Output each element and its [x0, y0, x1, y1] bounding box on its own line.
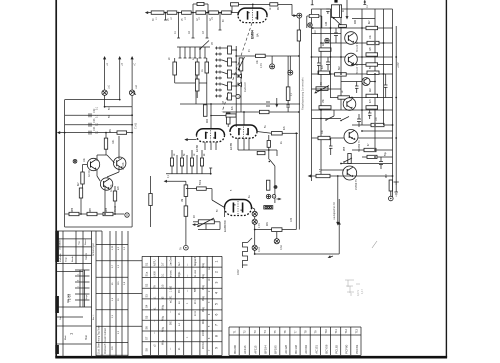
node input arrow left [57, 131, 65, 134]
wire R82 drop [105, 133, 107, 155]
capacitor C15 [286, 100, 290, 112]
node MP5 [272, 195, 276, 199]
wire hbus y81 [341, 81, 375, 83]
resistor R14 [256, 54, 266, 57]
right block outer rail [395, 26, 397, 185]
wire MP2 stub [271, 56, 273, 64]
svg-text:2: 2 [215, 271, 219, 273]
title block texts [59, 239, 108, 354]
capacitor C41 [334, 28, 338, 43]
capacitor C33 [89, 123, 91, 127]
resistor R31 [272, 228, 282, 232]
wire R10-R12 base [175, 58, 207, 83]
resistor R16 [259, 110, 269, 113]
trimmer bank Tr1 [179, 47, 207, 58]
right block rail4 [361, 9, 363, 125]
resistor R29 [197, 187, 207, 190]
svg-text:4: 4 [215, 292, 219, 294]
parts table grid [142, 256, 222, 355]
svg-text:R87: R87 [90, 207, 92, 212]
border frame right [445, 0, 447, 358]
switch S10 [343, 158, 352, 163]
wire V5 cathode down [185, 216, 187, 245]
wire V3 cathode row [238, 150, 277, 156]
wire R84 down [80, 198, 82, 214]
svg-text:20 90: 20 90 [202, 329, 205, 336]
svg-text:BCY58: BCY58 [324, 344, 328, 354]
resistor R88 [103, 212, 113, 215]
svg-text:S4: S4 [145, 304, 149, 308]
resistor R10 [173, 62, 177, 75]
svg-text:90 1: 90 1 [195, 299, 197, 304]
resistor R60 [366, 63, 378, 66]
border frame bottom [55, 356, 447, 359]
node +A supply arrow [103, 56, 106, 90]
tank circuit L10 [307, 0, 322, 28]
resistor R45 [318, 71, 330, 74]
node supply tap [394, 182, 399, 196]
capacitor C20 [266, 102, 270, 106]
svg-text:m1, 91: m1, 91 [170, 295, 173, 303]
svg-text:BF195: BF195 [274, 345, 278, 354]
svg-text:EABC80: EABC80 [223, 220, 227, 232]
wire stub top [363, 0, 366, 4]
resistor R48 [338, 96, 350, 99]
svg-text:50µ: 50µ [385, 151, 387, 156]
node MP1 [297, 13, 302, 18]
svg-text:Zus.: Zus. [60, 315, 62, 320]
filter bank Fi1 rows [215, 47, 222, 98]
svg-text:2xAA119: 2xAA119 [244, 82, 247, 92]
wire volume line arrow [164, 180, 186, 183]
svg-text:Werkstoff Modell Rohteil: Werkstoff Modell Rohteil [104, 328, 107, 354]
svg-text:Blatt: Blatt [85, 335, 88, 340]
svg-text:S5: S5 [145, 315, 149, 319]
wire tube pins V2 [205, 142, 216, 150]
capacitor C34 [89, 131, 91, 135]
resistor R6b [231, 3, 239, 6]
wire P2 arrow left [192, 223, 198, 226]
wire MP3 stub [289, 56, 291, 70]
node MP6 [308, 23, 312, 27]
svg-text:BF194: BF194 [264, 345, 268, 354]
svg-text:71-63: 71-63 [68, 294, 72, 302]
svg-text:R81: R81 [110, 128, 112, 133]
parts table first column labels [145, 262, 149, 351]
svg-text:C30: C30 [291, 217, 293, 222]
resistor R6 [222, 11, 232, 14]
svg-text:S7: S7 [145, 336, 149, 340]
resistor R53 [318, 136, 330, 139]
svg-text:int.ext.: int.ext. [170, 270, 173, 277]
wire T7 base link [83, 155, 115, 181]
svg-text:S8: S8 [145, 348, 149, 352]
transistor T9 [100, 178, 112, 190]
wire hbus y163 [341, 163, 393, 165]
svg-text:AC604: AC604 [304, 345, 308, 354]
right block rail5 [374, 9, 376, 150]
svg-text:UKW: UKW [154, 271, 157, 277]
resistor R11 [195, 62, 199, 75]
resistor R85 [113, 191, 116, 201]
svg-text:2SB56 T5: 2SB56 T5 [355, 179, 358, 190]
wire hbus y57 [312, 56, 393, 58]
svg-text:Wdg: Wdg [202, 306, 205, 312]
right block rail3 [340, 9, 342, 110]
diode D2 [238, 83, 241, 87]
wire bottom row link [65, 213, 124, 215]
resistor R12 [205, 62, 209, 73]
faint pencil marks [345, 280, 360, 296]
lamp La5 [274, 239, 279, 244]
transistor T3 [343, 98, 356, 111]
wire R17 stub [227, 124, 229, 127]
svg-text:Datum: Datum [85, 253, 88, 260]
node MP2 [270, 64, 275, 69]
right block rail2 [320, 9, 322, 176]
resistor R17 [226, 113, 230, 124]
svg-text:AC128: AC128 [284, 345, 288, 354]
wire hbus y176 [309, 175, 393, 177]
lamp La4 [252, 219, 257, 224]
node MP7 [325, 38, 329, 42]
capacitor C63 [329, 138, 333, 155]
svg-text:S3: S3 [145, 294, 149, 298]
junction dots extra [210, 27, 384, 255]
resistor R51 [366, 106, 378, 109]
svg-text:Bearb.: Bearb. [71, 255, 74, 262]
resistor R42 [367, 41, 379, 44]
wire R27-R28 [185, 196, 187, 206]
title block revision rows [96, 244, 142, 355]
wire hbus y18 [352, 18, 375, 20]
resistor R23 [170, 158, 173, 166]
resistor R22b [257, 151, 265, 154]
wire T8 collector up [107, 136, 119, 177]
svg-text:Wdg: Wdg [162, 326, 165, 332]
transistor T1 [345, 32, 358, 45]
right block rail extra2 [383, 9, 385, 125]
svg-text:S1: S1 [145, 262, 149, 266]
wire squiggle link [243, 238, 253, 268]
wire bus L4 [65, 132, 133, 134]
resistor R54 [364, 148, 376, 151]
switch S11 [325, 110, 334, 121]
resistor R0 top [197, 2, 204, 5]
capacitor C61 [355, 82, 359, 94]
junction bank [210, 173, 212, 175]
resistor R81 [117, 131, 127, 134]
svg-text:Abgleich: Abgleich [194, 256, 197, 266]
svg-text:BF123 T1: BF123 T1 [356, 41, 359, 52]
wire lamp links [105, 95, 133, 106]
potentiometer P1 [238, 57, 245, 71]
svg-text:T10: T10 [324, 328, 328, 333]
tube V2 EF80 [197, 129, 225, 136]
capacitor C23 elko [274, 185, 278, 189]
transistor T7 [87, 158, 99, 170]
resistor R24 [180, 158, 183, 166]
parts table row numbers [215, 261, 219, 350]
node Bu2 socket [184, 245, 189, 250]
lamp La3 [252, 211, 257, 216]
svg-text:71-63: 71-63 [135, 122, 138, 129]
capacitor C64 [368, 110, 372, 119]
tube V5 EABC80 [225, 200, 252, 208]
resistor R52 [371, 123, 384, 126]
svg-text:1: 1 [215, 261, 219, 263]
svg-text:4,0 V: 4,0 V [356, 290, 360, 296]
svg-text:9A: 9A [256, 33, 260, 37]
down arrow sym1 [275, 98, 278, 108]
svg-text:La2: La2 [135, 84, 138, 89]
wire chain drop d5 [219, 13, 222, 30]
wire R21 link [257, 132, 298, 134]
potentiometer P3 [314, 86, 329, 94]
wire R29 link [186, 189, 212, 200]
svg-text:Wdg: Wdg [162, 315, 165, 321]
svg-text:R88: R88 [106, 207, 108, 212]
node +B supply arrow [118, 56, 121, 100]
svg-text:2,4V: 2,4V [260, 63, 263, 68]
wire R0 link [193, 4, 208, 13]
wire R31 bus [255, 133, 297, 229]
wire chain drop d2 [177, 13, 180, 38]
title block small cells [75, 270, 90, 307]
resistor R87 [87, 212, 97, 215]
resistor R3 [182, 11, 192, 14]
wire hbus y170 [321, 169, 344, 171]
resistor R89 [149, 194, 152, 206]
resistor R5 [209, 11, 219, 14]
svg-text:TA: TA [180, 247, 183, 250]
wire B rail link [65, 100, 120, 227]
junction dots filter [235, 49, 237, 87]
wire tube pins V3 [238, 138, 249, 150]
svg-text:Wdg: Wdg [202, 262, 205, 268]
wire filter bank bus [222, 46, 236, 127]
resistor R15 [286, 87, 290, 101]
transistor T5 [343, 166, 357, 180]
lamp La2 [129, 90, 136, 95]
svg-text:1M: 1M [182, 199, 184, 202]
mains squiggle [243, 243, 248, 266]
wire hbus y118 [312, 118, 342, 120]
resistor R27 [184, 185, 188, 197]
svg-text:EF85: EF85 [229, 142, 233, 150]
svg-text:8: 8 [215, 335, 219, 337]
wire left box bottom rail [65, 226, 133, 228]
coil pack header row [177, 46, 210, 48]
connector box Bu4 [264, 206, 273, 209]
wire ground bus bottom [255, 199, 340, 254]
resistor R23b [267, 180, 270, 190]
wire left box right rail [131, 107, 133, 227]
title block outline [57, 231, 128, 357]
svg-text:AC128: AC128 [110, 184, 113, 192]
svg-text:m 91: m 91 [195, 310, 197, 316]
node Bu1 socket [125, 213, 129, 217]
svg-text:AC128: AC128 [122, 162, 125, 170]
svg-text:R20: R20 [207, 118, 209, 123]
svg-text:2,4V: 2,4V [258, 223, 261, 228]
wire chain drop d1 [164, 13, 167, 20]
svg-text:S2: S2 [145, 283, 149, 287]
filter bank coils column [228, 46, 232, 100]
right rail nodes [395, 56, 397, 139]
svg-text:90 910: 90 910 [202, 341, 205, 349]
svg-text:1 560: 1 560 [170, 285, 173, 292]
wire rail 299 [298, 18, 300, 230]
wire R89 [150, 176, 152, 227]
svg-text:7: 7 [215, 324, 219, 326]
wire hbus y131 [362, 130, 393, 132]
svg-text:220V: 220V [237, 269, 240, 275]
wire chain drop d4 [206, 13, 209, 38]
svg-text:R31: R31 [267, 221, 269, 226]
node Bu3 socket [389, 196, 394, 201]
resistor R49 [366, 94, 378, 97]
svg-text:AF115: AF115 [253, 345, 257, 354]
wire tube V1 bypass [232, 4, 292, 15]
junction dots right block [311, 27, 394, 177]
wire hbus y28 [312, 27, 393, 29]
svg-text:71-63: 71-63 [114, 205, 117, 212]
wire R11b stub [196, 91, 198, 98]
title block scribbles [59, 238, 126, 350]
wire R85 [105, 186, 115, 214]
tube table designators [233, 328, 359, 333]
resistor R57 [389, 180, 392, 191]
svg-text:T12: T12 [344, 328, 348, 333]
svg-text:T13: T13 [354, 328, 358, 333]
svg-text:R40: R40 [355, 19, 357, 24]
wire hbus y150 [352, 149, 393, 151]
resistor R47 [367, 71, 379, 74]
lamp La1 [102, 90, 107, 95]
right block right rail [392, 9, 394, 199]
svg-text:3: 3 [215, 282, 219, 284]
svg-text:Maßstab: Maßstab [59, 253, 62, 262]
title block edge bars [55, 231, 59, 262]
resistor R22 [267, 141, 270, 148]
resistor R86 [69, 212, 79, 215]
wire bank bus [166, 168, 212, 174]
resistor R55 [348, 154, 351, 164]
svg-text:PCL82: PCL82 [335, 345, 339, 354]
capacitor C62 [384, 74, 388, 98]
capacitor C32 [89, 113, 91, 117]
resistor R43 [319, 48, 331, 51]
svg-text:EM84: EM84 [251, 30, 255, 39]
resistor R44 [366, 53, 378, 56]
svg-text:Änderungen: Änderungen [92, 242, 95, 256]
potentiometer P2 [197, 218, 214, 227]
node +C supply arrow [131, 56, 134, 90]
tube table names [233, 344, 359, 354]
wire bus L3 [65, 124, 133, 126]
svg-text:+A: +A [106, 63, 109, 66]
svg-text:T11: T11 [334, 329, 338, 334]
wire V5 grid link [212, 200, 225, 217]
svg-text:Zust. Benennung Tag Nam: Zust. Benennung Tag Nam [98, 326, 101, 354]
right block left rail [311, 9, 313, 181]
lamp La6 [252, 245, 257, 250]
svg-text:9: 9 [215, 347, 219, 349]
tube V1 EC92 [238, 8, 267, 15]
node MP3 [288, 70, 293, 75]
svg-text:AF116: AF116 [243, 345, 247, 354]
svg-text:PCF82: PCF82 [355, 344, 359, 353]
svg-text:C44: C44 [326, 21, 328, 26]
svg-text:90 1: 90 1 [178, 288, 181, 293]
svg-text:R55: R55 [344, 146, 346, 151]
mechanical dashed link [222, 23, 252, 112]
resistor R21 [271, 132, 282, 135]
svg-text:TA: TA [154, 285, 157, 288]
switch S2 [199, 41, 209, 50]
svg-text:0,3A: 0,3A [280, 245, 283, 250]
capacitor C60 [317, 57, 321, 74]
wire hbus y33 [312, 33, 342, 35]
svg-text:BC148: BC148 [294, 345, 298, 354]
right block rail extra1 [330, 9, 332, 98]
node arrow out left [308, 175, 311, 178]
svg-text:0,1A: 0,1A [258, 247, 261, 252]
capacitor C42 [326, 57, 330, 70]
parts table extra entries [155, 267, 212, 351]
resistor R84 [79, 188, 82, 198]
svg-text:Regelspannung 1a verstärkt: Regelspannung 1a verstärkt [301, 77, 305, 110]
diode D1 [238, 74, 241, 78]
svg-text:+B: +B [121, 63, 124, 66]
transistor T8 [114, 157, 126, 169]
svg-text:Ers. f.: Ers. f. [92, 314, 95, 320]
svg-text:Wdg: Wdg [202, 318, 205, 324]
resistor R7 [270, 3, 278, 6]
resistor R26 [200, 158, 203, 166]
wire hbus y110 [312, 109, 393, 111]
svg-text:Gepr.: Gepr. [65, 256, 68, 262]
pencil diagonal [372, 241, 377, 248]
svg-text:BC206: BC206 [233, 345, 237, 354]
wire hbus y89 [312, 88, 342, 90]
svg-text:Wgb.: Wgb. [178, 271, 181, 277]
wire hbus y125 [352, 124, 393, 126]
svg-text:R81: R81 [112, 139, 115, 144]
resistor R28 [184, 206, 188, 216]
svg-text:R86: R86 [72, 207, 74, 212]
wire hbus y43 [321, 42, 393, 44]
wire chain drop d3 [192, 13, 195, 38]
wire volume arrow to V2 [184, 138, 196, 141]
svg-text:Auf.: Auf. [178, 261, 181, 266]
node feed arrow down [346, 0, 349, 20]
svg-text:500k: 500k [200, 179, 202, 185]
resistor R50 [319, 106, 331, 109]
transistor T6 [362, 78, 370, 86]
svg-text:PCF80: PCF80 [345, 344, 349, 353]
svg-text:Lim.Grw: Lim.Grw [170, 257, 173, 266]
wire mid link bus [223, 56, 299, 112]
resistor R1 [151, 11, 164, 14]
svg-text:R57: R57 [386, 173, 388, 178]
wire hbus y74 [312, 73, 393, 75]
resistor R46 [335, 73, 347, 76]
svg-text:m. ext.: m. ext. [194, 269, 197, 277]
svg-text:La1: La1 [108, 84, 111, 89]
wire hbus y138 [312, 137, 393, 139]
